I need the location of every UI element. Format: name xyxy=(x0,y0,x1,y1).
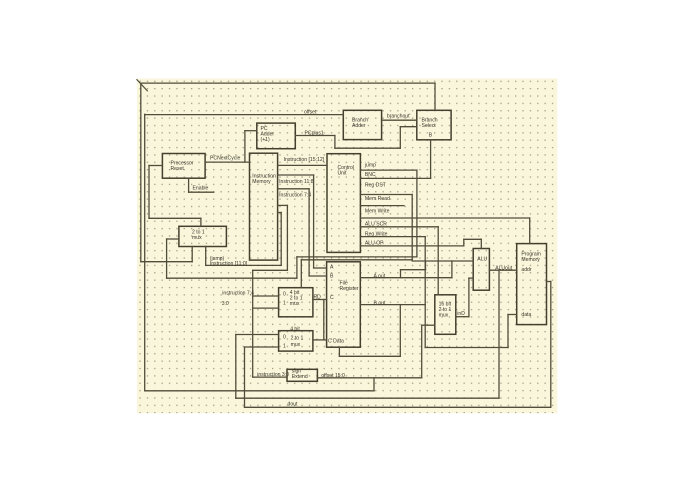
wire into Branch Select top xyxy=(434,83,436,110)
wire into RD mux input 1 xyxy=(253,307,279,309)
svg-text:ALU: ALU xyxy=(477,256,487,262)
block Branch Select xyxy=(417,110,451,140)
wire into writeback mux input 1 xyxy=(245,346,279,348)
wire PC mux select pin xyxy=(200,218,202,226)
wire Instruction 7:4 xyxy=(278,188,310,190)
svg-text:Enable: Enable xyxy=(193,185,209,191)
svg-text:Adder: Adder xyxy=(352,123,366,129)
wire up to PC Adder xyxy=(244,131,246,162)
svg-text:Unit: Unit xyxy=(338,170,348,176)
wire Instruction 11:0 left xyxy=(206,264,282,266)
block Control Unit xyxy=(327,154,360,253)
svg-text:mux: mux xyxy=(291,342,301,348)
wire Instruction 3:0 left xyxy=(253,269,288,271)
svg-text:(+1): (+1) xyxy=(261,137,271,143)
wire ALU SCR xyxy=(360,226,438,228)
block writeback 4-bit 2-to-1 mux xyxy=(279,331,313,351)
wire Reg DST into RD mux select xyxy=(300,260,302,288)
wire offset into Branch Adder xyxy=(145,114,344,116)
svg-text:B: B xyxy=(429,133,433,139)
wire Instruction 3:0 down xyxy=(286,205,288,270)
wire jump line up xyxy=(166,239,168,278)
wire B out xyxy=(360,304,425,306)
wire into File Register A xyxy=(314,267,327,269)
svg-text:A: A xyxy=(330,264,334,270)
svg-text:addr: addr xyxy=(521,267,531,273)
wire Instruction 3:0 trunk xyxy=(252,270,254,377)
wire into Program Memory data xyxy=(508,314,517,316)
wire into PC Adder xyxy=(245,130,257,132)
svg-text:branchout': branchout' xyxy=(387,113,411,119)
block Processor Reset xyxy=(162,154,205,179)
wire PCplus1 xyxy=(295,135,335,137)
wire offset loop bottom xyxy=(145,390,374,392)
wire A out up xyxy=(451,261,453,278)
wire ALU OP over ALU xyxy=(464,238,482,240)
wire into Sign Extend xyxy=(253,376,287,378)
wire jump line left xyxy=(167,277,297,279)
block ALU xyxy=(473,249,489,291)
svg-text:Extend: Extend xyxy=(292,374,308,380)
svg-text:Reset: Reset xyxy=(171,166,185,172)
svg-text:RD: RD xyxy=(314,295,322,301)
svg-text:PCplus1: PCplus1 xyxy=(305,130,324,136)
wire PCplus1 up xyxy=(399,127,401,149)
wire next-PC loop left xyxy=(140,83,142,262)
wire jump line across xyxy=(297,256,417,258)
wire ALU OP into ALU top xyxy=(480,239,482,248)
wire down left of Processor Reset xyxy=(148,166,150,219)
wire dout bottom xyxy=(245,406,551,408)
svg-text:instruction 7:4: instruction 7:4 xyxy=(222,290,254,296)
svg-text:mux: mux xyxy=(290,301,300,307)
wire writeback mux to C Data xyxy=(313,339,327,341)
svg-text:1: 1 xyxy=(283,344,286,350)
svg-text:inD: inD xyxy=(457,311,465,317)
svg-text:B: B xyxy=(330,274,334,280)
svg-text:C Data: C Data xyxy=(328,338,344,344)
wire BNC xyxy=(360,177,430,179)
svg-text:Mem Read: Mem Read xyxy=(365,196,390,202)
wire next-PC loop top xyxy=(141,82,435,84)
svg-text:ALU SCR: ALU SCR xyxy=(365,221,387,227)
svg-text:0: 0 xyxy=(283,291,286,297)
svg-text:Instruction [15:12]: Instruction [15:12] xyxy=(284,157,325,163)
svg-text:Select: Select xyxy=(422,123,437,129)
wire to PC mux select xyxy=(149,217,201,219)
svg-text:Reg Write: Reg Write xyxy=(365,231,388,237)
svg-text:2 to 1: 2 to 1 xyxy=(291,335,304,341)
wire Mem Write xyxy=(360,217,529,219)
svg-text:B out: B out xyxy=(374,300,386,306)
wire ALU OP xyxy=(360,245,463,247)
svg-text:Instruction [11:0]: Instruction [11:0] xyxy=(210,261,248,267)
wire Program Memory out xyxy=(547,281,551,283)
wire Processor Reset left xyxy=(149,165,162,167)
svg-text:C: C xyxy=(330,295,334,301)
wire File Register bottom pin xyxy=(338,347,340,356)
wire RD junction down xyxy=(323,300,325,340)
block Sign Extend xyxy=(287,369,317,381)
wire PC mux jump pin xyxy=(205,247,207,266)
wire jump line down xyxy=(296,257,298,278)
corner mark xyxy=(137,80,147,91)
wire Instruction 7:4 down xyxy=(308,189,310,276)
wire dout right side down xyxy=(550,282,552,408)
wire Enable stub down xyxy=(188,178,190,192)
svg-text:jump: jump xyxy=(364,162,376,168)
wire Reg DST xyxy=(360,194,412,196)
wire Instruction 11:8 down xyxy=(313,175,315,268)
wire next-PC loop bottom xyxy=(141,261,192,263)
wire into writeback mux input 0 xyxy=(236,334,279,336)
wire into PC mux input xyxy=(167,238,179,240)
wire Mem Write into Program Memory top xyxy=(529,218,531,244)
svg-text:BNC: BNC xyxy=(365,172,376,178)
svg-text:PCNextCycle: PCNextCycle xyxy=(210,156,240,162)
wire into File Register B xyxy=(309,275,327,277)
wire offset loop left xyxy=(144,114,146,391)
wire Enable stub xyxy=(189,191,214,193)
wire Reg DST line across xyxy=(301,259,412,261)
wire Reg DST down xyxy=(411,195,413,260)
svg-text:A out: A out xyxy=(374,273,386,279)
wire B out down to loop xyxy=(399,305,401,357)
wire PCNextCycle xyxy=(205,161,249,163)
wire A out jog up xyxy=(400,270,402,278)
wire into ALU input B xyxy=(469,277,473,279)
wire Instruction 15:12 to Control xyxy=(278,164,327,166)
wire Reg Write xyxy=(360,236,425,238)
block File Register xyxy=(327,262,361,347)
block RD 4-bit 2-to-1 mux xyxy=(279,288,313,317)
svg-text:Mem Write: Mem Write xyxy=(365,209,390,215)
wire Mem Read stub xyxy=(360,205,404,207)
wire A out jog xyxy=(401,269,426,271)
wire inD up xyxy=(468,278,470,317)
wire PC mux bottom pin xyxy=(191,247,193,262)
wire branchout xyxy=(382,119,417,121)
wire Instruction 11:8 xyxy=(278,174,314,176)
wire B out to memory data xyxy=(425,347,508,349)
wire dout up xyxy=(244,347,246,407)
wire PCplus1 into Branch Select xyxy=(400,126,417,128)
wire inD xyxy=(456,316,469,318)
svg-text:dout: dout xyxy=(288,401,298,407)
svg-text:ALU OP: ALU OP xyxy=(365,240,384,246)
wire PCplus1 under Branch Adder xyxy=(335,147,400,149)
wire ALUout feedback up xyxy=(235,335,237,399)
wire ALU OP step up xyxy=(463,239,465,246)
block PC Adder xyxy=(257,123,296,149)
svg-text:offset: offset xyxy=(304,110,317,116)
wire Branch Select B down xyxy=(430,140,432,179)
svg-text:3:0: 3:0 xyxy=(222,301,229,307)
wire PCplus1 down xyxy=(334,136,336,149)
svg-text:Memory: Memory xyxy=(521,257,540,263)
wire A out jog up 2 xyxy=(425,261,427,270)
wire offset 15:0 xyxy=(317,377,421,379)
wire jump down xyxy=(416,170,418,257)
block 16-bit 2-to-1 mux xyxy=(435,295,456,335)
wire offset branch down xyxy=(373,378,375,391)
wire A out xyxy=(360,277,452,279)
wire into 16-bit mux input xyxy=(422,324,435,326)
svg-text:offset 15:0: offset 15:0 xyxy=(321,373,345,379)
block PC 2-to-1 mux xyxy=(179,226,227,246)
svg-text:ALUout: ALUout xyxy=(495,266,513,272)
wire Reg Write down xyxy=(424,237,426,348)
svg-text:mux: mux xyxy=(439,313,449,319)
block Program Memory xyxy=(517,244,547,325)
svg-text:1: 1 xyxy=(283,300,286,306)
svg-text:4 bit: 4 bit xyxy=(290,327,300,333)
svg-text:Register: Register xyxy=(340,286,359,292)
svg-text:Instruction 11:8: Instruction 11:8 xyxy=(279,179,314,185)
svg-text:instruction 3:0: instruction 3:0 xyxy=(257,372,289,378)
svg-text:Reg DST: Reg DST xyxy=(365,182,386,188)
svg-text:mux: mux xyxy=(192,235,202,241)
svg-text:0: 0 xyxy=(283,334,286,340)
wire ALUout to addr xyxy=(489,269,516,271)
wire into ALU input A xyxy=(412,260,473,262)
block Branch Adder xyxy=(343,110,381,139)
schematic sheet xyxy=(137,79,557,414)
wire ALUout feedback down xyxy=(498,270,500,398)
wire Instruction 11:0 down xyxy=(280,213,282,266)
wire offset up to mux xyxy=(421,325,423,378)
wire RD into File Register C xyxy=(313,299,327,301)
wire Instruction 3:0 xyxy=(278,204,288,206)
wire under File Register xyxy=(339,355,400,357)
wire Instruction 11:0 xyxy=(278,212,282,214)
block Instruction Memory xyxy=(250,153,278,260)
wire up to data pin xyxy=(507,315,509,348)
wire ALU SCR down to 16-bit mux select xyxy=(437,227,439,295)
svg-text:Instruction 7:4: Instruction 7:4 xyxy=(279,192,311,198)
svg-text:data: data xyxy=(521,312,531,318)
wire jump xyxy=(360,169,417,171)
wire into RD mux input 0 xyxy=(253,295,279,297)
wire ALUout feedback bottom xyxy=(236,397,499,399)
svg-text:Memory: Memory xyxy=(252,179,271,185)
